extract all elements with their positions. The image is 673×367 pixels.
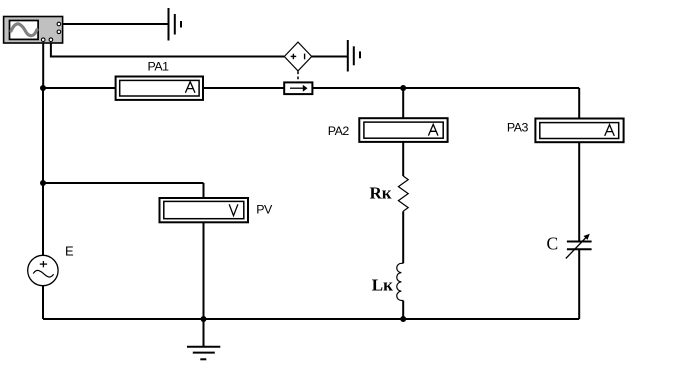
svg-text:Lк: Lк bbox=[372, 276, 393, 295]
AC source E bbox=[28, 255, 58, 285]
wire left rail from scope down to source E bbox=[42, 42, 44, 256]
svg-text:PA2: PA2 bbox=[328, 124, 350, 138]
svg-text:E: E bbox=[65, 243, 74, 258]
wire bottom rail bbox=[43, 318, 579, 320]
ammeter PA2 bbox=[359, 118, 447, 142]
variable capacitor C bbox=[566, 234, 592, 259]
node junction bottom rail / PV ground branch bbox=[201, 316, 207, 322]
wire resistor Rk to inductor Lk bbox=[402, 211, 404, 263]
ground right of diamond (rotated) bbox=[348, 40, 360, 72]
wire middle column through PA2 to resistor Rk bbox=[402, 88, 404, 176]
node junction top rail / PA2 branch bbox=[400, 85, 406, 91]
dashed link diamond to current sensor bbox=[297, 71, 299, 82]
node junction left rail / PV branch bbox=[40, 180, 46, 186]
svg-text:C: C bbox=[547, 234, 559, 254]
oscilloscope XSC1 bbox=[4, 17, 63, 44]
svg-text:PA1: PA1 bbox=[148, 60, 170, 74]
wire top rail through PA1 and current sensor to right column bbox=[43, 87, 579, 89]
resistor Rk bbox=[398, 176, 408, 211]
ground bottom bbox=[187, 347, 220, 360]
wire CCVS diamond to right ground bbox=[312, 56, 348, 58]
wire scope right terminal to top ground bbox=[61, 23, 169, 25]
wire capacitor bottom plate to bottom rail bbox=[578, 249, 580, 319]
wire left rail to voltmeter PV and down to bottom ground bbox=[43, 183, 204, 347]
ammeter PA3 bbox=[535, 119, 623, 143]
node junction left rail / PA1 branch bbox=[40, 85, 46, 91]
ammeter PA1 bbox=[116, 77, 203, 100]
CCVS current sensor box with arrow bbox=[284, 82, 312, 94]
CCVS diamond source bbox=[284, 42, 311, 71]
wire scope bottom-right terminal down then right to CCVS diamond bbox=[51, 42, 284, 57]
svg-text:PA3: PA3 bbox=[507, 120, 529, 134]
wire source E bottom to bottom rail bbox=[42, 286, 44, 319]
wire right column down through PA3 to capacitor top plate bbox=[578, 88, 580, 242]
inductor Lk bbox=[397, 263, 403, 300]
ground top (rotated) bbox=[169, 8, 182, 41]
voltmeter PV bbox=[160, 198, 249, 222]
svg-text:Rк: Rк bbox=[370, 183, 392, 202]
node junction bottom rail / Lk branch bbox=[400, 316, 406, 322]
svg-text:PV: PV bbox=[256, 202, 273, 216]
wire inductor Lk to bottom rail bbox=[402, 301, 404, 320]
